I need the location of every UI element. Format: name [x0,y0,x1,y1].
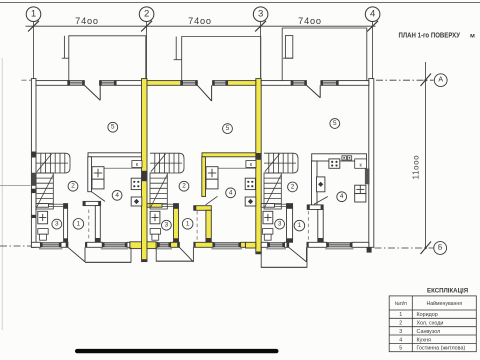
svg-text:5: 5 [111,124,115,131]
unit1 corridor top stub wall [83,201,101,205]
unit1 corridor/kitchen wall caps [95,238,100,242]
svg-text:А: А [438,77,443,84]
room bubble 2 [288,182,298,192]
unit3 bath/corridor wall [287,207,293,242]
room bubble 1 [182,219,193,230]
unit1 hall/bath wall [36,204,49,208]
unit3 front window sill [325,248,353,250]
unit2 corridor/kitchen wall caps [206,238,211,242]
svg-text:ЕКСПЛІКАЦІЯ: ЕКСПЛІКАЦІЯ [427,287,468,294]
unit3 staircase [264,153,298,209]
svg-text:5: 5 [226,125,230,132]
unit3 bathroom door [275,203,287,205]
unit2 hall/bath wall (highlighted) [147,204,162,208]
row axis A dash-dot line [376,79,434,81]
grid axis 3 tick slash [255,21,266,32]
unit3 stove [329,159,340,168]
room bubble 3 [275,219,285,229]
unit2 kitchen cabinet K [246,161,256,168]
unit1 bathroom sink [38,211,48,224]
room bubble 3 [162,220,172,230]
unit1 terrace outline [69,36,146,81]
svg-text:3: 3 [258,9,263,20]
svg-text:2: 2 [182,183,186,190]
row axis A stub at left edge [22,79,32,81]
unit2 living/kitchen wall (highlighted) [202,153,256,157]
svg-text:3: 3 [55,221,59,228]
unit1 front wall pier [86,242,103,247]
unit3 wash basin with diamond [317,177,325,192]
unit1 bathroom door [49,203,64,205]
unit1 kitchen door swing [92,192,106,202]
row axis B junction dot [424,247,426,249]
unit2 entry porch outline [156,248,193,262]
svg-text:74oo: 74oo [188,16,212,26]
unit1 corridor dashed overhead line [88,210,90,242]
unit3 hall/bath wall [261,204,274,208]
unit3 terrace outline [282,28,367,84]
unit3 front wall pier [261,242,268,247]
unit3 front wall pier [352,242,369,247]
svg-text:2: 2 [399,321,402,327]
svg-text:Найменування: Найменування [427,300,463,307]
unit3 chimney [283,36,293,59]
scan top border line [0,1,480,3]
svg-text:74oo: 74oo [75,16,99,26]
unit1 front wall pier [127,242,130,247]
unit1 kitchen counter line [92,167,142,169]
svg-text:ПЛАН 1-го ПОВЕРХУ: ПЛАН 1-го ПОВЕРХУ [399,30,461,39]
explication table frame [389,296,476,352]
unit2 rear wall left pier (highlighted) [147,81,181,86]
top dimension line [26,25,376,27]
unit1 corridor/kitchen wall [95,206,100,243]
unit2 kitchen counter line [206,167,256,169]
unit2 rear door leaf [197,85,211,101]
unit2 corridor top stub wall (highlighted) [194,206,212,211]
unit2 corridor dashed overhead line [196,211,198,242]
unit1 rear wall left pier [36,81,68,86]
svg-text:3: 3 [165,222,169,229]
unit1 entry door jambs [66,243,68,248]
unit2 front wall pier [194,242,213,247]
svg-text:Кухня: Кухня [417,337,432,343]
left exterior wall [31,79,36,248]
svg-text:Санвузол: Санвузол [417,329,441,335]
row axis A tick slash [421,74,432,87]
unit2 terrace outline [182,37,261,81]
unit2 front window sill [211,248,242,250]
unit1 kitchen worktop [92,179,104,189]
unit3 bathroom sink [263,211,273,224]
svg-text:11ooo: 11ooo [412,155,421,180]
left wall cap at living room wall [32,152,36,158]
party wall axis 3 bottom end cap [256,252,261,254]
svg-text:1: 1 [298,222,302,229]
unit3 living/kitchen wall [312,154,367,161]
unit3 front wall pier [307,242,327,247]
unit2 stove [245,178,255,189]
unit2 toilet [150,229,160,235]
unit3 corridor/kitchen wall [318,210,323,243]
grid axis 3 bubble [253,7,268,22]
unit1 sink [131,197,142,206]
svg-text:3: 3 [278,221,282,228]
unit1 kitchen cabinet K [132,161,142,168]
room bubble 4 [226,188,236,198]
left wall dark mark at bathroom [31,215,36,218]
unit2 rear window 1 [181,80,198,85]
row axis B extension at left edge [0,245,32,247]
unit3 front window [268,242,285,247]
unit1 rear door leaf [84,85,100,100]
row axis B tick slash [421,242,432,255]
unit1 front wall pier [61,242,68,247]
party wall axis 3 (highlighted) [256,79,261,254]
room bubble 4 [112,190,122,200]
stair window sill extension line at left edge [0,184,31,186]
unit3 rear wall right pier [338,81,369,86]
unit1 fridge [92,167,104,180]
grid axis 1 vertical line [33,22,35,81]
unit3 kitchen worktop [355,194,366,202]
unit3 entry door swing [306,247,308,262]
party wall axis 2 (highlighted) [142,79,148,262]
room bubble 1 [73,219,84,230]
unit2 chimney [174,37,182,60]
svg-text:Гостинна (житлова): Гостинна (житлова) [417,346,466,352]
unit3 corridor top stub wall [307,205,323,210]
unit3 front window sill [266,248,286,250]
svg-text:4: 4 [370,9,375,20]
unit1 bath/corridor wall [64,207,68,242]
room bubble 5 [223,124,233,134]
room bubble 3 [52,219,62,229]
unit2 kitchen door swing [206,196,218,205]
unit1 chimney [62,36,69,58]
row axis B bubble [434,242,447,255]
unit3 kitchen partition [312,161,318,205]
grid axis 2 tick slash [141,21,152,32]
unit1 rear window 1 [68,80,85,85]
svg-text:Коридор: Коридор [417,312,438,318]
left wall dark mark below stair window [31,189,36,193]
unit1 stove [131,178,141,189]
unit3 toilet [263,229,273,235]
unit1 front window sill [101,248,129,250]
unit1 stair window in left wall [31,173,36,186]
unit1 toilet [38,229,48,235]
unit3 front window [327,242,352,247]
room bubble 5 [108,122,118,132]
grid axis 4 vertical line [372,22,374,81]
unit2 corridor/kitchen wall (highlighted) [206,210,211,242]
grid axis 2 bubble [139,7,154,22]
svg-text:4: 4 [340,193,344,200]
unit2 front window sill [156,248,172,250]
unit1 front window [40,242,61,247]
svg-text:1: 1 [399,312,402,318]
svg-text:№п/п: №п/п [395,301,407,307]
unit1 living/kitchen wall [88,153,142,157]
unit2 bathroom door [162,203,174,205]
svg-text:2: 2 [291,183,295,190]
svg-text:1: 1 [77,220,81,227]
right exterior wall bottom cap [367,247,372,252]
row axis A junction dot [424,79,426,81]
svg-text:м: м [470,33,475,40]
party wall axis 2 bottom end cap [142,259,147,261]
svg-text:1: 1 [186,220,190,227]
unit3 vent shaft on right wall [365,169,370,185]
unit3 kitchen cabinet K [355,159,367,168]
unit1 front window [102,242,127,247]
grid axis 4 bubble [365,7,380,22]
unit2 front window [213,242,241,247]
unit2 front wall pier [171,242,180,247]
unit2 rear wall right pier (highlighted) [228,81,256,86]
room bubble 2 [68,181,78,191]
unit2 front wall pier [156,242,157,247]
svg-text:2: 2 [144,9,149,20]
unit3 vent boxes [342,156,346,160]
grid axis 2 vertical line [146,22,148,81]
unit3 corridor dashed overhead line [307,211,309,241]
svg-text:5: 5 [399,346,402,352]
party wall axis 2 porch arm (highlighted) [130,242,142,249]
svg-text:74oo: 74oo [298,16,322,26]
unit1 rear wall right pier [116,81,141,86]
grid axis 4 tick slash [367,21,378,32]
unit3 front wall pier [285,242,289,247]
unit3 rear window 1 [291,80,306,85]
svg-text:1: 1 [31,9,36,20]
room bubble 4 [337,192,347,202]
unit1 entry porch outline [85,248,131,263]
unit2 bath/corridor wall (highlighted) [174,207,179,242]
vertical dimension line 11900 [425,62,427,248]
unit2 front window [158,242,171,247]
svg-text:4: 4 [399,337,402,343]
svg-text:3: 3 [399,329,402,335]
room bubble 1 [294,220,305,231]
svg-text:4: 4 [229,189,233,196]
room bubble 2 [179,181,189,191]
svg-text:Б: Б [438,245,443,252]
svg-text:4: 4 [115,192,119,199]
unit2 entry door swing [192,247,194,262]
axis2 wall dark segment [142,171,147,181]
unit1 front wall pier [31,242,40,247]
grid axis 1 tick slash [28,21,39,32]
unit3 kitchen door swing [314,197,328,205]
unit2 front wall pier [241,242,246,247]
unit3 corridor/kitchen wall caps [318,238,323,242]
right exterior wall [369,79,374,248]
unit2 bathroom sink [150,211,160,224]
unit3 rear wall left pier [261,81,291,86]
unit3 rear window 2 [321,80,338,85]
unit1 rear window 2 [100,80,117,85]
bottom black bar [75,349,279,353]
row axis A bubble [434,74,447,87]
row axis B dash-dot line [375,247,434,249]
room bubble 5 [330,119,340,129]
unit3 entry door jambs [287,243,289,248]
unit2 kitchen worktop [206,179,218,189]
unit2 entry door jambs [177,243,179,248]
unit1 staircase [36,153,70,209]
unit2 fridge [206,167,218,180]
unit1 entry door swing [84,247,86,262]
svg-text:2: 2 [71,183,75,190]
unit2 kitchen partition (highlighted) [202,157,206,197]
scan left edge line [1,58,3,330]
grid axis 3 vertical line [260,22,262,81]
grid axis 1 bubble [26,7,41,22]
unit2 staircase [150,153,184,209]
unit3 sink [355,185,366,193]
svg-text:5: 5 [333,120,337,127]
unit3 rear door leaf [307,85,321,98]
unit1 front window sill [39,248,63,250]
axis3 wall cap at living room wall [256,153,261,160]
unit2 rear window 2 [213,80,228,85]
party wall axis 3 porch arm (highlighted) [245,242,255,248]
unit3 entry porch outline [261,248,307,268]
svg-text:Хол, сходи: Хол, сходи [417,321,444,327]
unit2 sink [245,197,256,206]
unit1 kitchen partition [88,157,92,192]
